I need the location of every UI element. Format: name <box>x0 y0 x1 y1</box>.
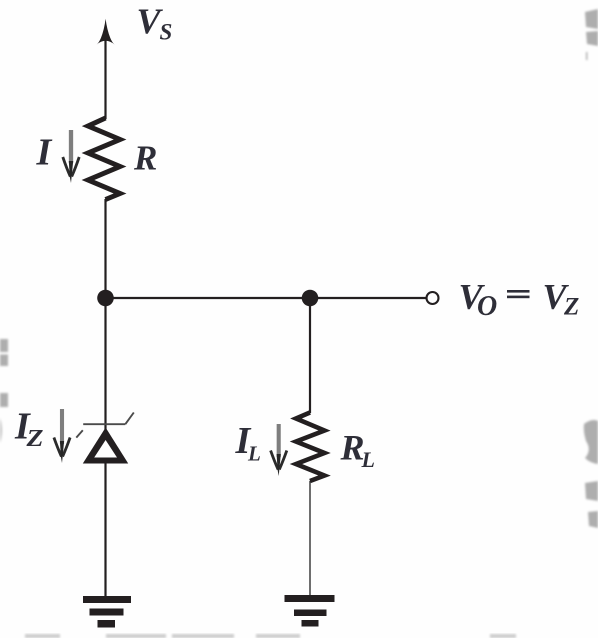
svg-text:R: R <box>133 139 157 178</box>
svg-text:I: I <box>36 132 53 174</box>
svg-text:L: L <box>361 447 375 472</box>
svg-text:S: S <box>160 20 173 45</box>
svg-text:Z: Z <box>25 426 44 452</box>
svg-text:Z: Z <box>563 294 579 321</box>
svg-text:L: L <box>247 442 261 466</box>
svg-text:O: O <box>477 291 497 322</box>
